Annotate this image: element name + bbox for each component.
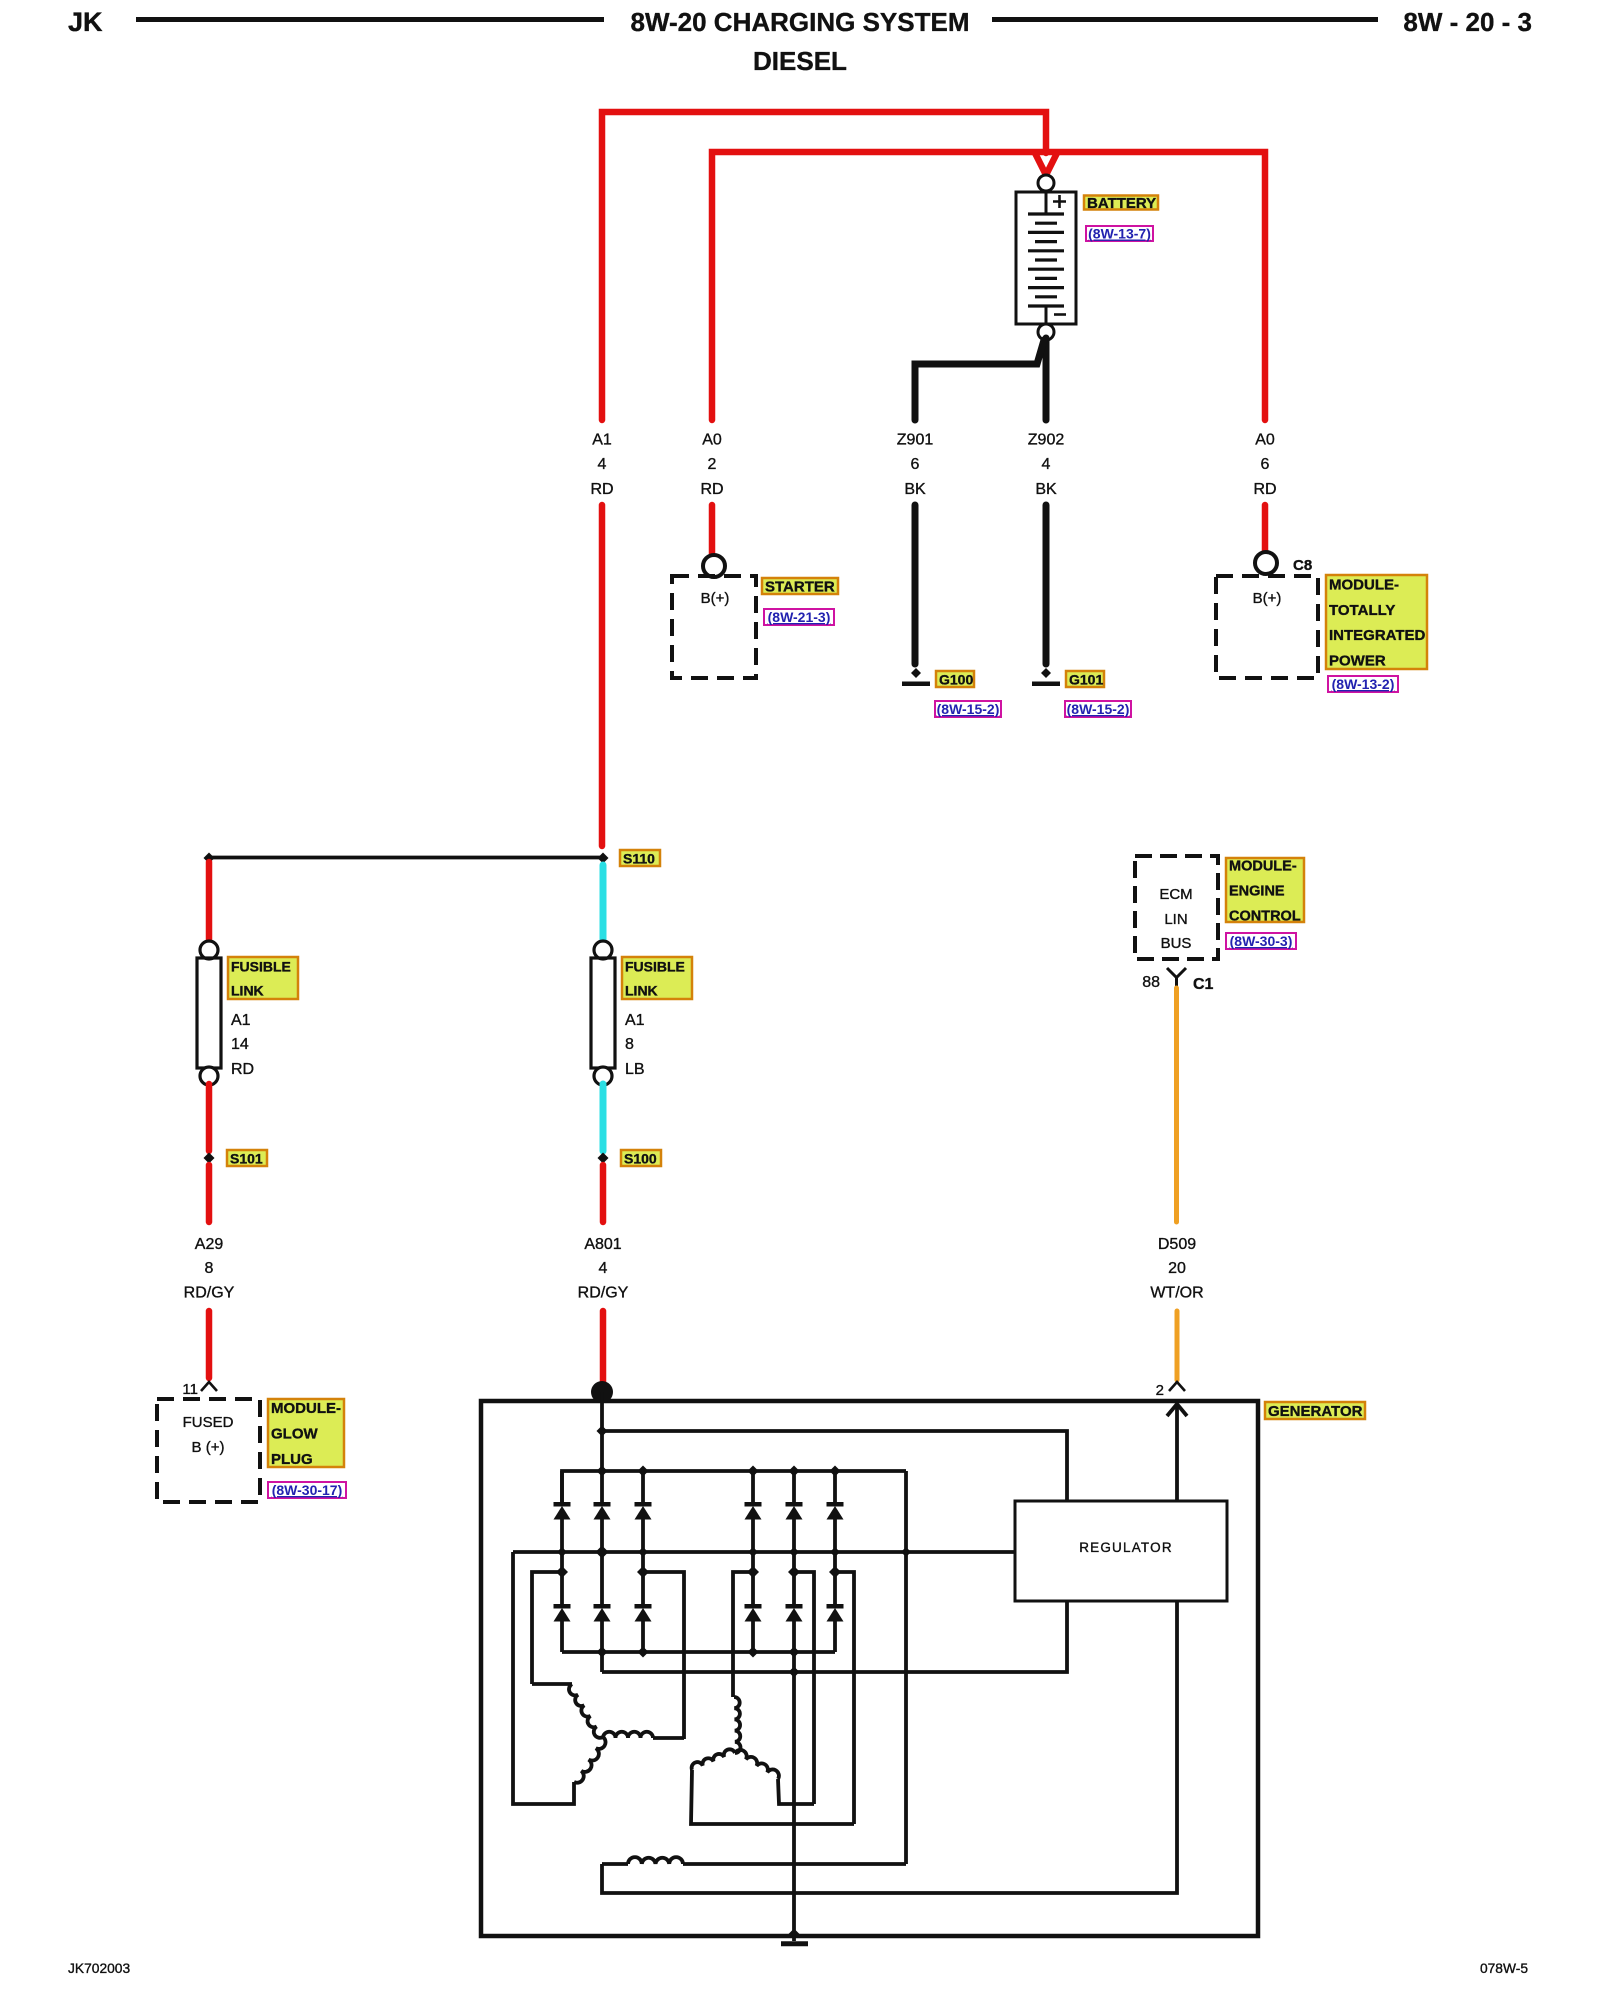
- svg-text:BUS: BUS: [1161, 935, 1192, 952]
- phase bracket winding2 C: [835, 1572, 854, 1824]
- wire Z902 lower segment: [1043, 505, 1050, 664]
- node generator ground at case: [789, 1929, 800, 1940]
- svg-text:WT/OR: WT/OR: [1150, 1285, 1203, 1302]
- label MODULE-ENGINE CONTROL: [1226, 858, 1304, 922]
- node positive bus junction x643: [638, 1466, 649, 1477]
- node junction at 1431: [597, 1426, 608, 1437]
- svg-text:A1: A1: [231, 1012, 251, 1029]
- ECM pin 88 connector Y: [1167, 968, 1186, 987]
- header rule right: [992, 17, 1378, 22]
- svg-text:DIESEL: DIESEL: [753, 46, 847, 76]
- right fusible link body: [591, 958, 615, 1068]
- svg-text:GENERATOR: GENERATOR: [1268, 1403, 1363, 1420]
- svg-text:8W-20 CHARGING SYSTEM: 8W-20 CHARGING SYSTEM: [631, 7, 970, 37]
- svg-text:RD: RD: [590, 481, 613, 498]
- link 8W-13-7: [1086, 226, 1153, 241]
- wire rectifier negative bus: [562, 1650, 835, 1654]
- svg-text:TOTALLY: TOTALLY: [1329, 602, 1395, 619]
- wire regulator ground line: [602, 1601, 1067, 1672]
- wire LB to right fusible link: [600, 865, 607, 942]
- wire field feed from positive bus: [904, 1471, 908, 1864]
- node positive bus junction x835: [830, 1466, 841, 1477]
- diode lower x602: [594, 1604, 611, 1609]
- phase bracket winding1 A: [532, 1572, 562, 1684]
- node phase junction x835: [829, 1566, 841, 1578]
- generator box: [481, 1401, 1258, 1936]
- svg-text:LINK: LINK: [231, 983, 264, 999]
- wire stator bus to regulator: [513, 1550, 1015, 1554]
- stator winding1 phase A lead: [532, 1682, 572, 1686]
- svg-text:CONTROL: CONTROL: [1229, 909, 1301, 925]
- wire A0 lower segment to starter: [709, 505, 716, 554]
- wire B+ vertical inside generator: [600, 1392, 604, 1471]
- svg-text:FUSIBLE: FUSIBLE: [231, 959, 291, 975]
- node negative bus junction x643: [638, 1647, 649, 1658]
- left fusible link bottom circle: [200, 1067, 218, 1085]
- diode upper x643: [641, 1471, 645, 1502]
- wire Z901 branch from battery negative: [915, 340, 1044, 420]
- fused glow plug dashed box: [157, 1399, 260, 1502]
- wire rectifier positive bus: [562, 1471, 906, 1502]
- wire D509 upper segment: [1174, 988, 1179, 1222]
- wire A801 upper segment: [600, 1165, 607, 1222]
- stator winding2 phase B lead: [778, 1779, 814, 1804]
- stator winding1 coil A: [569, 1684, 603, 1738]
- phase bracket winding1 B: [643, 1572, 684, 1739]
- wire field return: [602, 1601, 1177, 1893]
- svg-text:(8W-30-17): (8W-30-17): [272, 1482, 343, 1498]
- svg-text:A0: A0: [1255, 432, 1275, 449]
- svg-text:14: 14: [231, 1036, 249, 1053]
- diode lower x794: [786, 1604, 803, 1609]
- svg-text:POWER: POWER: [1329, 652, 1386, 669]
- diode lower x562: [554, 1604, 571, 1609]
- svg-text:2: 2: [708, 456, 717, 473]
- generator B+ stud node: [591, 1381, 613, 1403]
- diode lower x753: [745, 1604, 762, 1609]
- svg-text:D509: D509: [1158, 1236, 1196, 1253]
- svg-text:S110: S110: [623, 851, 655, 867]
- svg-text:ENGINE: ENGINE: [1229, 884, 1285, 900]
- label G101: [1066, 671, 1104, 687]
- phase bracket winding2 A: [733, 1572, 753, 1697]
- wire RD to left fusible link: [206, 862, 213, 942]
- svg-text:LIN: LIN: [1164, 911, 1187, 928]
- svg-text:MODULE-: MODULE-: [1329, 577, 1399, 594]
- svg-text:MODULE-: MODULE-: [271, 1400, 341, 1417]
- svg-text:A0: A0: [702, 432, 722, 449]
- node S101 diamond: [204, 1153, 215, 1164]
- svg-text:Z902: Z902: [1028, 432, 1065, 449]
- right fusible link top circle: [594, 941, 612, 959]
- svg-text:(8W-13-2): (8W-13-2): [1332, 676, 1395, 692]
- wire A0 lower segment to TIPM: [1262, 505, 1269, 551]
- svg-text:A29: A29: [195, 1236, 224, 1253]
- svg-text:G100: G100: [939, 672, 973, 688]
- svg-text:FUSIBLE: FUSIBLE: [625, 959, 685, 975]
- svg-text:11: 11: [182, 1381, 198, 1398]
- ground G101 symbol: [1041, 668, 1051, 678]
- svg-text:RD/GY: RD/GY: [578, 1285, 629, 1302]
- label STARTER: [762, 578, 838, 594]
- wire A0 2 RD horizontal bus to battery and TIPM: [712, 152, 1265, 420]
- node phase junction x794: [788, 1566, 800, 1578]
- svg-text:88: 88: [1142, 974, 1160, 991]
- svg-text:6: 6: [911, 456, 920, 473]
- svg-text:RD/GY: RD/GY: [184, 1285, 235, 1302]
- terminal 2 caret: [1169, 1382, 1185, 1391]
- diode upper x753: [751, 1471, 755, 1502]
- wire A29 lower segment: [206, 1311, 213, 1378]
- wire Z902 from battery negative: [1043, 338, 1050, 420]
- svg-text:G101: G101: [1069, 672, 1103, 688]
- link 8W-15-2 right: [1065, 701, 1131, 717]
- label FUSIBLE LINK left: [228, 957, 298, 999]
- diode lower x835: [827, 1604, 844, 1609]
- svg-text:JK: JK: [68, 7, 103, 37]
- svg-text:(8W-15-2): (8W-15-2): [937, 701, 1000, 717]
- svg-text:RD: RD: [1253, 481, 1276, 498]
- stator winding2 coil A: [734, 1697, 740, 1753]
- svg-text:2: 2: [1156, 1382, 1164, 1399]
- node phase junction x643: [637, 1566, 649, 1578]
- label GENERATOR: [1265, 1402, 1365, 1419]
- svg-text:20: 20: [1168, 1260, 1186, 1277]
- svg-text:(8W-21-3): (8W-21-3): [768, 609, 831, 625]
- link 8W-13-2: [1328, 676, 1398, 692]
- label G100: [936, 671, 974, 687]
- stator winding2 phase C lead: [691, 1770, 854, 1824]
- wire A1 4 RD lower segment: [599, 505, 606, 846]
- link 8W-15-2 left: [935, 701, 1001, 717]
- battery positive terminal circle: [1038, 175, 1054, 191]
- svg-text:8: 8: [625, 1036, 634, 1053]
- label FUSIBLE LINK right: [622, 957, 692, 999]
- link 8W-21-3: [764, 609, 834, 625]
- node stator bus small junction x794: [789, 1547, 799, 1557]
- svg-text:S101: S101: [230, 1151, 263, 1167]
- svg-text:A1: A1: [592, 432, 612, 449]
- label BATTERY: [1084, 196, 1158, 210]
- wire A1 4 RD horizontal from A1 column to battery: [602, 112, 1046, 420]
- link 8W-30-17: [268, 1482, 346, 1498]
- svg-text:C8: C8: [1293, 557, 1312, 574]
- wire A801 lower segment: [600, 1311, 607, 1390]
- svg-text:ECM: ECM: [1159, 886, 1192, 903]
- link 8W-30-3: [1226, 933, 1296, 949]
- svg-text:(8W-15-2): (8W-15-2): [1067, 701, 1130, 717]
- regulator box: [1015, 1501, 1227, 1601]
- node stator bus small junction x906: [901, 1547, 911, 1557]
- diode upper x835: [833, 1471, 837, 1502]
- label S100: [621, 1150, 661, 1166]
- svg-text:GLOW: GLOW: [271, 1426, 318, 1443]
- diode upper x562: [560, 1471, 564, 1502]
- svg-text:(8W-30-3): (8W-30-3): [1230, 933, 1293, 949]
- node stator bus small junction x562: [557, 1547, 567, 1557]
- node stator bus junction x602: [596, 1546, 609, 1559]
- svg-text:B (+): B (+): [192, 1439, 225, 1456]
- generator case ground symbol: [792, 1934, 796, 1941]
- diode upper x602: [600, 1471, 604, 1502]
- svg-text:B(+): B(+): [701, 590, 730, 607]
- svg-text:FUSED: FUSED: [183, 1414, 234, 1431]
- svg-text:078W-5: 078W-5: [1480, 1961, 1528, 1976]
- wire ground stub to regulator ground line: [600, 1652, 604, 1672]
- wire D509 lower segment: [1175, 1311, 1180, 1380]
- wire RD below left fusible link: [206, 1084, 213, 1151]
- node phase junction x753: [747, 1566, 759, 1578]
- terminal 2 entry arrow: [1175, 1404, 1179, 1501]
- svg-text:BK: BK: [904, 481, 926, 498]
- node negative bus junction x753: [748, 1647, 759, 1658]
- svg-text:(8W-13-7): (8W-13-7): [1088, 226, 1151, 242]
- ECM dashed box: [1135, 856, 1218, 959]
- left fusible link top circle: [200, 941, 218, 959]
- wire A29 upper segment: [206, 1165, 213, 1222]
- svg-text:RD: RD: [700, 481, 723, 498]
- node diamond left of S110 bus: [204, 853, 215, 864]
- svg-text:REGULATOR: REGULATOR: [1079, 1540, 1173, 1555]
- phase bracket winding2 B: [794, 1572, 814, 1804]
- node phase junction x562: [556, 1566, 568, 1578]
- label S110: [620, 850, 660, 866]
- stator winding2 coil C: [692, 1749, 735, 1770]
- arrow junction into battery positive: [1035, 153, 1057, 175]
- node stator bus small junction x753: [748, 1547, 758, 1557]
- node positive bus junction x794: [789, 1466, 800, 1477]
- starter dashed box: [672, 576, 756, 678]
- node ground line junction x794: [789, 1667, 800, 1678]
- svg-text:JK702003: JK702003: [68, 1961, 130, 1976]
- stator winding1 phase B lead: [653, 1736, 684, 1740]
- left fusible link body: [197, 958, 221, 1068]
- stator winding1 coil C: [574, 1737, 606, 1783]
- node negative bus junction x602: [597, 1647, 608, 1658]
- node negative bus junction x794: [789, 1647, 800, 1658]
- svg-text:8W - 20 - 3: 8W - 20 - 3: [1403, 7, 1532, 37]
- node S100 diamond: [598, 1153, 609, 1164]
- svg-text:RD: RD: [231, 1061, 254, 1078]
- svg-text:MODULE-: MODULE-: [1229, 859, 1297, 875]
- diode lower x643: [635, 1604, 652, 1609]
- svg-text:A801: A801: [584, 1236, 621, 1253]
- field coil: [602, 1862, 628, 1866]
- svg-text:STARTER: STARTER: [765, 579, 835, 596]
- header rule left: [136, 17, 604, 22]
- svg-text:Z901: Z901: [897, 432, 934, 449]
- svg-text:8: 8: [205, 1260, 214, 1277]
- TIPM dashed box: [1216, 576, 1318, 678]
- svg-text:PLUG: PLUG: [271, 1451, 313, 1468]
- battery BATT cells: [1016, 192, 1076, 324]
- stator winding2 coil B: [735, 1750, 779, 1779]
- svg-text:4: 4: [599, 1260, 608, 1277]
- diode upper x794: [792, 1471, 796, 1502]
- label S101: [227, 1150, 267, 1166]
- wire Z901 lower segment: [912, 505, 919, 664]
- label MODULE-GLOW PLUG: [268, 1399, 344, 1467]
- stator winding1 coil B: [603, 1732, 653, 1738]
- splice bus S110 horizontal: [209, 856, 603, 860]
- battery negative terminal circle: [1038, 324, 1054, 340]
- node stator bus small junction x835: [830, 1547, 840, 1557]
- svg-text:4: 4: [1042, 456, 1051, 473]
- wire branch to regulator top: [602, 1431, 1067, 1501]
- svg-text:A1: A1: [625, 1012, 645, 1029]
- svg-text:INTEGRATED: INTEGRATED: [1329, 627, 1426, 644]
- TIPM B+ terminal circle C8: [1255, 552, 1277, 574]
- starter B+ terminal circle: [703, 555, 725, 577]
- svg-text:BATTERY: BATTERY: [1087, 195, 1156, 212]
- svg-text:B(+): B(+): [1253, 590, 1282, 607]
- right fusible link bottom circle: [594, 1067, 612, 1085]
- svg-text:6: 6: [1261, 456, 1270, 473]
- svg-text:BK: BK: [1035, 481, 1057, 498]
- svg-text:C1: C1: [1193, 976, 1214, 993]
- svg-text:4: 4: [598, 456, 607, 473]
- terminal 11 caret: [201, 1382, 217, 1391]
- stator winding1 phase C lead: [513, 1552, 574, 1804]
- wire generator ground: [792, 1652, 796, 1934]
- label MODULE-TOTALLY INTEGRATED POWER: [1326, 575, 1427, 669]
- wire LB below right fusible link: [600, 1084, 607, 1151]
- node positive bus junction x753: [748, 1466, 759, 1477]
- svg-text:LINK: LINK: [625, 983, 658, 999]
- svg-text:LB: LB: [625, 1061, 645, 1078]
- svg-text:S100: S100: [624, 1151, 657, 1167]
- node S110 diamond: [598, 853, 609, 864]
- ground G100 symbol: [911, 668, 921, 678]
- node positive bus junction x602: [597, 1466, 608, 1477]
- node stator bus small junction x643: [638, 1547, 648, 1557]
